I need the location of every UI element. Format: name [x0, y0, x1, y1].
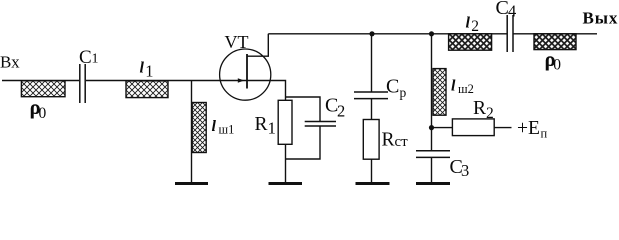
transistor channel bar: [246, 54, 248, 89]
svg-text:l: l: [212, 118, 217, 135]
wire main input line: [2, 80, 247, 82]
svg-text:+E: +E: [517, 118, 540, 139]
svg-text:Вых: Вых: [583, 9, 619, 28]
wire C3 bottom: [431, 157, 433, 182]
node junction dot R2: [429, 125, 434, 130]
wire source: [247, 81, 286, 101]
svg-text:1: 1: [92, 52, 99, 67]
svg-text:2: 2: [337, 101, 345, 120]
svg-text:2: 2: [471, 18, 479, 35]
resistor R2: [452, 119, 494, 136]
wire to R2: [432, 127, 453, 129]
wire Rст bottom: [371, 159, 373, 182]
node junction dot lш2 top: [429, 31, 434, 36]
resistor R1: [278, 100, 292, 144]
ground 3: [356, 182, 390, 185]
wire C2 top branch: [286, 97, 321, 122]
svg-text:ст: ст: [395, 134, 409, 150]
wire R1 bottom: [285, 144, 287, 182]
capacitor C2: [305, 122, 336, 127]
svg-text:0: 0: [39, 105, 47, 122]
svg-text:R: R: [382, 129, 395, 150]
svg-text:ш1: ш1: [219, 123, 235, 137]
ground 1: [175, 182, 208, 185]
svg-text:R: R: [255, 114, 268, 135]
microstrip l2: [449, 34, 492, 50]
microstrip stub lш2: [433, 69, 446, 116]
resistor Rст: [363, 120, 379, 160]
svg-text:4: 4: [508, 2, 516, 21]
capacitor Cp: [354, 92, 388, 99]
resistor ρ0 input microstrip: [21, 81, 65, 97]
transistor gate arrow: [238, 78, 244, 83]
resistor ρ0 output microstrip: [534, 34, 576, 50]
svg-text:п: п: [541, 127, 548, 141]
svg-text:l: l: [140, 59, 145, 76]
svg-text:3: 3: [461, 161, 469, 180]
svg-text:ш2: ш2: [458, 82, 474, 96]
svg-text:C: C: [386, 75, 399, 97]
svg-text:1: 1: [268, 118, 277, 137]
ground 2: [269, 182, 303, 185]
capacitor C3: [416, 151, 450, 158]
svg-text:l: l: [451, 78, 456, 95]
svg-text:2: 2: [486, 105, 494, 122]
wire drain: [247, 34, 268, 56]
microstrip stub lш1: [192, 103, 206, 153]
wire lш2 branch vertical: [431, 34, 433, 151]
node junction dot Cp: [369, 31, 374, 36]
wire R2 to Eп: [494, 127, 511, 129]
microstrip l1: [126, 81, 168, 98]
capacitor C1: [80, 64, 85, 103]
wire C2 bottom branch: [286, 126, 321, 159]
svg-text:0: 0: [553, 56, 561, 73]
wire Cp to Rст: [371, 99, 373, 120]
svg-text:C: C: [496, 0, 509, 19]
ground 4: [416, 182, 450, 185]
svg-text:Вх: Вх: [0, 53, 20, 72]
svg-text:р: р: [400, 85, 407, 100]
wire Cp branch: [371, 34, 373, 92]
transistor VT: [220, 49, 271, 100]
svg-text:R: R: [473, 98, 486, 119]
svg-text:l: l: [466, 14, 471, 31]
wire stub branch vertical: [191, 81, 193, 183]
capacitor C4: [507, 15, 513, 52]
svg-text:С: С: [79, 47, 92, 68]
wire top rail: [268, 33, 597, 35]
svg-text:VT: VT: [225, 32, 249, 52]
svg-text:1: 1: [145, 62, 153, 81]
